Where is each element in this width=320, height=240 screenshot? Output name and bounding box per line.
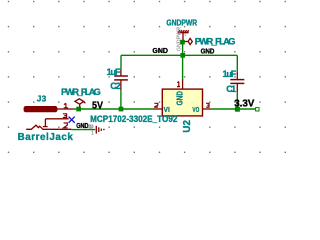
svg-text:GND: GND <box>88 124 94 130</box>
svg-text:1: 1 <box>184 32 187 37</box>
svg-text:PWR_FLAG: PWR_FLAG <box>61 87 101 97</box>
svg-text:VO: VO <box>192 105 199 114</box>
svg-text:GND: GND <box>152 46 168 55</box>
svg-text:U2: U2 <box>182 120 193 133</box>
svg-text:1uF: 1uF <box>107 67 121 77</box>
svg-text:C2: C2 <box>110 81 120 91</box>
svg-text:VI: VI <box>164 105 170 114</box>
svg-text:BarrelJack: BarrelJack <box>18 132 74 143</box>
svg-text:GNDPWR: GNDPWR <box>166 17 197 27</box>
svg-text:GNDPWR: GNDPWR <box>176 26 182 51</box>
svg-text:1uF: 1uF <box>223 69 237 79</box>
svg-text:GND: GND <box>201 46 215 55</box>
svg-text:MCP1702-3302E_TO92: MCP1702-3302E_TO92 <box>90 114 177 124</box>
svg-text:5V: 5V <box>92 101 103 112</box>
svg-text:GND: GND <box>175 91 184 105</box>
svg-text:C1: C1 <box>226 84 236 94</box>
svg-text:J3: J3 <box>37 95 47 104</box>
svg-text:PWR_FLAG: PWR_FLAG <box>195 36 236 46</box>
svg-text:3.3V: 3.3V <box>234 98 255 109</box>
